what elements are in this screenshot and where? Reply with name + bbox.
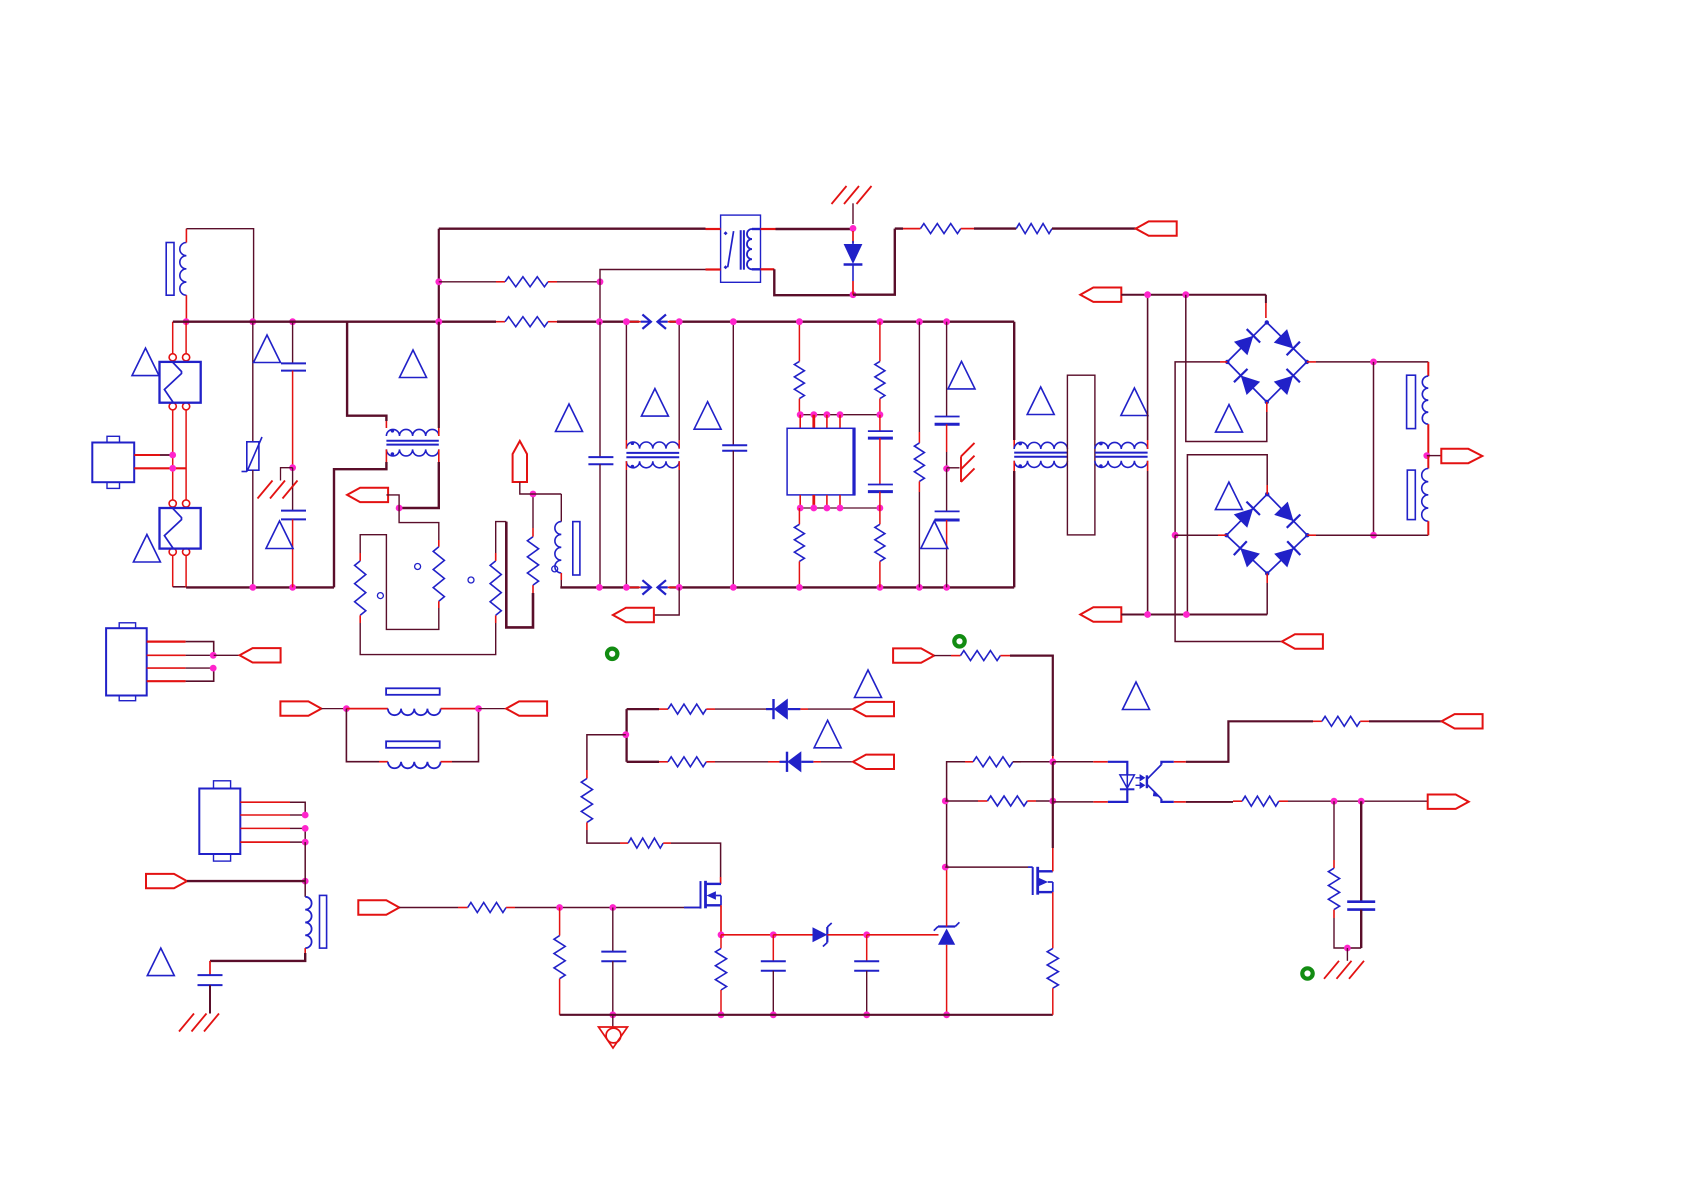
- resistor R1: [439, 281, 496, 283]
- breaker TH2: [160, 508, 201, 549]
- node: [622, 731, 629, 738]
- wire: [1427, 455, 1442, 457]
- transformer T5 secondary core bar: [1407, 375, 1416, 428]
- wire: [399, 907, 458, 909]
- capacitor C14: [1360, 801, 1362, 902]
- node: [942, 798, 949, 805]
- diode BR2-b: [1274, 502, 1293, 522]
- inductor L3: [346, 708, 388, 710]
- wire: [147, 654, 186, 656]
- diode BR2-c: [1240, 548, 1260, 567]
- isolation barrier: [1067, 375, 1095, 535]
- wire: [947, 762, 974, 801]
- inductor L4: [346, 709, 379, 762]
- net connector: [1441, 449, 1482, 463]
- resistor R16: [581, 779, 592, 823]
- warning triangle: [948, 361, 975, 389]
- net connector: [280, 701, 321, 715]
- node: [770, 931, 777, 938]
- net connector: [1136, 221, 1177, 235]
- winding: [1427, 456, 1429, 469]
- warning triangle: [1123, 682, 1150, 710]
- wire: [1266, 402, 1268, 412]
- capacitor C11: [612, 908, 614, 952]
- node: [770, 1011, 777, 1018]
- pin marker: [415, 564, 421, 570]
- green marker: [607, 649, 617, 659]
- wire: [438, 428, 440, 436]
- wire: [385, 449, 387, 462]
- resistor R10: [433, 547, 444, 601]
- resistor R13: [527, 537, 538, 585]
- resistor R2: [496, 321, 505, 323]
- warning triangle: [1121, 388, 1148, 416]
- net connector: [240, 648, 281, 662]
- capacitor C7: [946, 322, 948, 417]
- node: [289, 464, 296, 471]
- net connector: [1442, 714, 1483, 728]
- wire: [587, 735, 626, 770]
- wire: [438, 229, 440, 322]
- wire: [1052, 848, 1054, 871]
- wire: [808, 708, 853, 710]
- relay pin: [706, 228, 721, 230]
- node: [210, 652, 217, 659]
- wire: [1013, 461, 1015, 471]
- transformer T5 secondary 2 core bar: [1407, 470, 1415, 519]
- resistor R22: [965, 761, 973, 763]
- capacitor C4: [732, 322, 734, 446]
- node: [943, 1011, 950, 1018]
- node: [796, 584, 803, 591]
- warning triangle: [147, 948, 174, 976]
- ground earth: [612, 1015, 614, 1027]
- diode D3: [715, 761, 768, 763]
- wire: [1161, 762, 1173, 765]
- node: [597, 278, 604, 285]
- capacitor C10: [198, 974, 223, 976]
- IC U1 pins: [799, 415, 801, 429]
- transformer T3 secondary: [1095, 442, 1148, 449]
- wire: [587, 830, 620, 843]
- wire: [399, 508, 439, 540]
- wire: [600, 270, 709, 282]
- node: [396, 505, 403, 512]
- node: [1049, 758, 1056, 765]
- transformer T4 winding: [305, 897, 311, 948]
- capacitor C13: [866, 935, 868, 961]
- node: [302, 812, 309, 819]
- bridge BR2: [1227, 494, 1308, 573]
- capacitor C1: [292, 322, 294, 364]
- varistor RV1: [252, 322, 254, 442]
- resistor R6: [879, 322, 881, 362]
- inductor L3 core bar: [386, 688, 440, 695]
- net connector: [893, 648, 934, 662]
- wire: [1265, 295, 1267, 303]
- ground chassis: [179, 1014, 219, 1032]
- IC U1 top pin bus: [799, 414, 880, 416]
- wire: [625, 322, 627, 440]
- wire: [1010, 656, 1053, 756]
- capacitor C2: [292, 468, 294, 511]
- capacitor C12: [772, 935, 774, 961]
- node: [475, 705, 482, 712]
- resistor R5: [798, 322, 800, 362]
- resistor R18: [468, 903, 506, 913]
- wire: [774, 269, 853, 295]
- resistor R12: [490, 561, 501, 615]
- green marker: [1302, 968, 1312, 978]
- wire: [185, 555, 187, 587]
- wire: [1036, 800, 1053, 802]
- node: [1423, 452, 1430, 459]
- net connector: [853, 755, 894, 769]
- node: [183, 318, 190, 325]
- breaker TH1 terminals: [169, 354, 176, 361]
- resistor R11: [355, 561, 366, 615]
- wire: [671, 843, 721, 877]
- bottom bus: [560, 1014, 1053, 1016]
- wire: [172, 410, 174, 500]
- wire: [438, 449, 440, 462]
- choke T2: [626, 442, 679, 449]
- node: [942, 864, 949, 871]
- node: [1344, 945, 1351, 952]
- wire: [1052, 762, 1054, 801]
- inductor L2 core bar: [573, 522, 580, 575]
- diode D1: [852, 231, 854, 243]
- resistor R3: [903, 228, 921, 230]
- wire: [1121, 294, 1266, 296]
- green marker: [954, 636, 964, 646]
- warning triangle: [1027, 387, 1054, 415]
- node: [850, 225, 857, 232]
- IC U1: [787, 428, 855, 495]
- wire: [1161, 799, 1173, 802]
- net connector: [1428, 795, 1469, 809]
- wire: [1013, 761, 1053, 763]
- wire: [974, 227, 1016, 229]
- wire: [386, 495, 399, 508]
- choke T1: [386, 429, 438, 436]
- ground chassis: [852, 203, 854, 224]
- warning triangle: [1215, 482, 1242, 510]
- node: [1144, 611, 1151, 618]
- wire L bus: [173, 321, 496, 323]
- wire: [172, 555, 174, 586]
- optocoupler U2 transistor: [1146, 775, 1148, 788]
- wire: [776, 228, 854, 230]
- wire: [360, 623, 496, 655]
- wire: [304, 842, 306, 881]
- wire: [1307, 361, 1316, 363]
- wire: [532, 494, 534, 528]
- warning triangle: [556, 404, 583, 432]
- ground chassis: [281, 468, 293, 481]
- node: [1144, 291, 1151, 298]
- wire N bus: [186, 586, 334, 588]
- spark gap SG1: [627, 321, 641, 323]
- net connector: [613, 608, 654, 622]
- diode BR2-a: [1234, 508, 1253, 527]
- wire: [1288, 800, 1427, 802]
- node: [1370, 359, 1377, 366]
- net connector: [506, 701, 547, 715]
- wire: [185, 229, 187, 243]
- node: [343, 705, 350, 712]
- node: [1331, 798, 1338, 805]
- net connector: [1080, 288, 1121, 302]
- warning triangle: [921, 521, 948, 549]
- wire: [946, 801, 948, 867]
- node: [943, 465, 950, 472]
- wire: [625, 709, 627, 762]
- wire: [821, 761, 853, 763]
- resistor R9: [918, 322, 920, 432]
- node: [676, 318, 683, 325]
- wire: [240, 827, 290, 829]
- wire: [1266, 485, 1268, 494]
- ground chassis: [1346, 948, 1348, 961]
- optocoupler U2 LED: [1053, 761, 1094, 763]
- node: [863, 931, 870, 938]
- mosfet Q1: [684, 907, 701, 909]
- diode BR2-d: [1274, 548, 1294, 567]
- wire: [1218, 534, 1227, 536]
- IC U1 bottom pin bus: [799, 507, 880, 509]
- wire: [240, 801, 290, 803]
- relay K1: [721, 215, 761, 282]
- diode D2: [715, 708, 766, 710]
- wire: [209, 985, 211, 1013]
- node: [596, 584, 603, 591]
- IC U1 pins: [799, 495, 801, 508]
- mosfet Q2: [945, 866, 1028, 868]
- wire: [147, 680, 186, 682]
- resistor R19: [559, 908, 561, 936]
- zener ZD2: [938, 929, 955, 945]
- capacitor C5: [879, 415, 881, 431]
- net connector: [513, 441, 527, 482]
- wire: [1013, 322, 1015, 440]
- wire: [240, 841, 290, 843]
- wire: [1121, 614, 1267, 616]
- resistor R27: [1333, 801, 1335, 860]
- wire: [827, 934, 866, 936]
- resistor R7: [798, 508, 800, 524]
- net connector: [347, 488, 388, 502]
- node: [863, 1011, 870, 1018]
- breaker TH2 terminals: [169, 500, 176, 507]
- node: [169, 452, 176, 459]
- wire: [360, 535, 439, 630]
- wire: [721, 934, 773, 936]
- wire: [853, 229, 895, 295]
- diode BR1-d: [1274, 376, 1293, 395]
- ground chassis: [947, 467, 960, 469]
- warning triangle: [254, 335, 281, 363]
- spark gap SG2: [627, 586, 641, 588]
- capacitor C8: [946, 469, 948, 512]
- node: [596, 318, 603, 325]
- node: [718, 931, 725, 938]
- warning triangle: [1216, 405, 1243, 433]
- wire: [1175, 535, 1282, 641]
- connector J2: [106, 628, 147, 695]
- inductor L2: [560, 494, 562, 522]
- node: [435, 278, 442, 285]
- wire: [134, 454, 160, 456]
- node: [1172, 532, 1179, 539]
- net connector: [1080, 607, 1121, 621]
- transformer T3 primary: [1014, 442, 1067, 449]
- wire: [1052, 227, 1136, 229]
- node: [530, 491, 537, 498]
- resistor R23: [945, 800, 978, 802]
- resistor R8: [879, 508, 881, 524]
- connector J3: [199, 789, 240, 855]
- warning triangle: [132, 348, 159, 376]
- node: [796, 318, 803, 325]
- wire: [946, 867, 948, 926]
- wire: [867, 934, 939, 936]
- wire: [186, 229, 253, 322]
- warning triangle: [266, 521, 293, 549]
- capacitor C3: [599, 322, 601, 457]
- node: [249, 584, 256, 591]
- wire: [1334, 918, 1347, 948]
- transformer T4 core bar: [320, 895, 327, 948]
- resistor R4: [1016, 224, 1052, 234]
- wire: [479, 708, 507, 710]
- node: [609, 1011, 616, 1018]
- resistor R21: [961, 651, 1001, 661]
- wire: [496, 522, 507, 553]
- wire: [147, 667, 186, 669]
- wire: [506, 522, 533, 628]
- connector J1: [92, 443, 134, 483]
- capacitor C6: [868, 484, 893, 486]
- wire: [520, 482, 562, 494]
- winding: [1427, 362, 1429, 376]
- wire: [1147, 295, 1149, 440]
- wire: [678, 322, 680, 440]
- wire: [439, 227, 706, 229]
- warning triangle: [641, 389, 668, 417]
- wire: [304, 948, 306, 953]
- wire: [347, 322, 386, 421]
- diode BR1-c: [1241, 376, 1260, 395]
- resistor R25: [1322, 716, 1360, 726]
- net connector: [1282, 634, 1323, 648]
- warning triangle: [855, 670, 882, 698]
- optocoupler U2 light arrows: [1136, 775, 1145, 780]
- net connector: [853, 702, 894, 716]
- node: [556, 904, 563, 911]
- node: [1370, 532, 1377, 539]
- wire: [1373, 362, 1375, 535]
- wire: [1147, 461, 1149, 471]
- warning triangle: [133, 535, 160, 563]
- net connector: [358, 900, 399, 914]
- wire: [1307, 534, 1316, 536]
- wire: [214, 654, 240, 656]
- resistor R26: [1242, 796, 1279, 806]
- node: [1049, 798, 1056, 805]
- wire: [654, 587, 679, 615]
- wire: [147, 640, 186, 642]
- resistor R20: [720, 935, 722, 949]
- diode BR1-a: [1234, 336, 1253, 355]
- fuse/inductor L1 core bar: [166, 243, 174, 296]
- resistor R15: [627, 761, 659, 763]
- wire: [321, 708, 346, 710]
- wire: [1369, 720, 1442, 722]
- wire: [240, 814, 290, 816]
- node: [718, 1011, 725, 1018]
- diode BR1-b: [1274, 329, 1293, 348]
- inductor L4 core bar: [386, 741, 440, 748]
- resistor R14: [627, 708, 659, 710]
- warning triangle: [694, 402, 721, 430]
- warning triangle: [814, 720, 841, 748]
- wire: [187, 880, 305, 882]
- breaker TH1: [160, 362, 201, 403]
- inductor L1: [180, 243, 187, 296]
- wire: [1266, 574, 1268, 584]
- resistor R24: [1047, 948, 1058, 988]
- bridge BR1: [1227, 322, 1307, 402]
- net connector: [146, 874, 187, 888]
- wire: [134, 467, 186, 469]
- wire: [720, 905, 722, 935]
- zener ZD1: [773, 934, 812, 936]
- wire: [934, 655, 951, 657]
- wire: [172, 322, 174, 354]
- node: [730, 318, 737, 325]
- wire: [946, 945, 948, 1015]
- wire: [1220, 361, 1227, 363]
- wire: [515, 907, 700, 909]
- node: [623, 318, 630, 325]
- warning triangle: [400, 350, 427, 378]
- resistor R17: [628, 838, 663, 848]
